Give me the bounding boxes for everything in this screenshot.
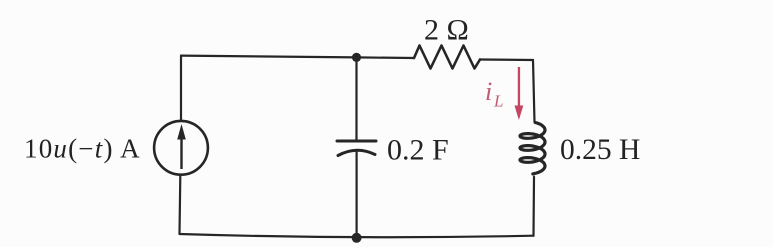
wire: left vertical top (top rail to source)	[180, 56, 182, 120]
node A junction dot (top middle)	[352, 53, 361, 62]
wire: top left horizontal (source to node A)	[181, 56, 414, 58]
svg-text:10u(−t) A: 10u(−t) A	[24, 134, 141, 164]
svg-text:i: i	[485, 77, 492, 106]
svg-text:2 Ω: 2 Ω	[424, 14, 469, 47]
inductor L1 coil (0.25 H)	[520, 123, 545, 174]
wire: left vertical bottom (source to bottom rail)	[178, 176, 181, 234]
svg-text:0.25 H: 0.25 H	[560, 134, 640, 166]
wire: top right horizontal (resistor to inductor corner)	[480, 58, 533, 61]
svg-text:L: L	[493, 92, 503, 111]
capacitor C1 curved bottom plate	[338, 150, 375, 155]
svg-text:0.2 F: 0.2 F	[387, 134, 449, 167]
wire: right vertical bottom (inductor to bottom rail)	[532, 177, 535, 236]
wire: middle vertical top (node A to capacitor)	[355, 57, 357, 139]
wire: middle vertical bottom (capacitor to node B)	[356, 151, 358, 238]
current source I1 arrow	[177, 124, 186, 169]
inductor current arrow iL (red)	[515, 67, 524, 120]
capacitor C1 top plate	[337, 140, 376, 143]
resistor R (2 ohm) zigzag	[414, 46, 480, 69]
wire: right vertical top (corner to inductor)	[533, 60, 535, 122]
node B junction dot (bottom middle)	[352, 233, 362, 243]
wire: bottom rail	[180, 234, 534, 237]
current source I1 circle	[154, 121, 208, 175]
